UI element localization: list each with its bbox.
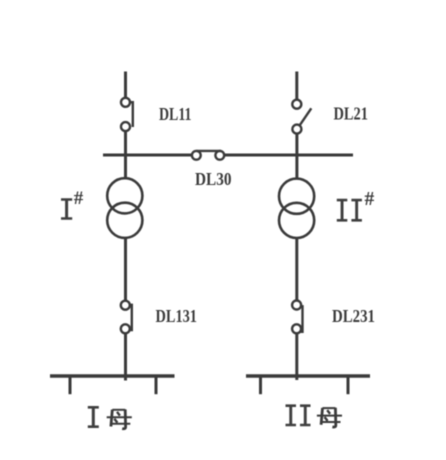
wire tie right section	[224, 154, 353, 157]
svg-text:DL131: DL131	[156, 306, 198, 326]
svg-text:DL30: DL30	[195, 169, 232, 189]
wire tie left section	[103, 154, 192, 157]
svg-text:#: #	[365, 189, 375, 210]
wire right feeder mid	[295, 134, 298, 179]
label II 母 (bus II)	[286, 404, 343, 427]
busbar I	[50, 376, 175, 394]
wire DL131 to bus I	[124, 333, 127, 381]
breaker DL11	[121, 98, 133, 131]
svg-text:DL21: DL21	[334, 104, 369, 124]
svg-text:DL231: DL231	[332, 306, 375, 326]
transformer T1	[107, 178, 142, 238]
label II# (transformer 2)	[337, 189, 375, 222]
wire left transformer to DL131	[124, 238, 127, 301]
wire right feeder top	[295, 72, 298, 100]
svg-text:DL11: DL11	[159, 104, 192, 124]
svg-text:#: #	[74, 188, 84, 209]
wire left feeder mid	[124, 131, 127, 179]
breaker DL30 (tie)	[192, 151, 224, 160]
label I# (transformer 1)	[61, 188, 84, 220]
breaker DL231	[292, 301, 302, 334]
wire right transformer to DL231	[295, 238, 298, 301]
busbar II	[246, 376, 370, 394]
wire left feeder top	[124, 72, 127, 99]
transformer T2	[279, 179, 314, 238]
wire DL231 to bus II	[295, 333, 298, 380]
breaker DL131	[121, 301, 132, 334]
breaker DL21 (open)	[292, 100, 311, 134]
label I 母 (bus I)	[88, 406, 132, 429]
